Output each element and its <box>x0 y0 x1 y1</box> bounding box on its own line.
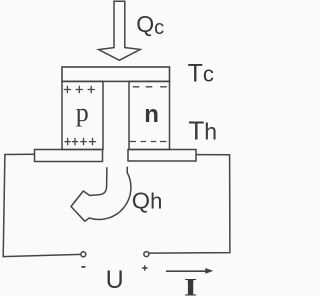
terminal plus (open circle) <box>144 252 149 257</box>
svg-text:Th: Th <box>188 116 217 146</box>
left electrode (hot side) <box>35 150 103 162</box>
svg-text:Tc: Tc <box>188 60 214 88</box>
right electrode (hot side) <box>128 150 196 162</box>
svg-text:Qh: Qh <box>132 188 163 214</box>
current direction arrow <box>166 270 206 272</box>
svg-text:U: U <box>106 266 124 294</box>
minus charges top of n leg (dashes) <box>133 86 167 88</box>
cold plate <box>62 67 170 81</box>
p-type leg <box>62 81 103 149</box>
heat flow arrow Qc (hollow down arrow) <box>99 1 141 60</box>
plus charges top of p leg <box>64 86 95 94</box>
heat flow arrow Qh (curved hollow arrow) <box>71 167 131 222</box>
svg-text:p: p <box>76 98 89 127</box>
wire left (electrode to minus terminal) <box>3 154 80 256</box>
minus charges bottom of n leg (dashes) <box>130 141 167 143</box>
plus sign <box>142 265 148 271</box>
minus sign <box>81 266 85 268</box>
terminal minus (open circle) <box>81 252 86 257</box>
svg-text:I: I <box>184 273 197 296</box>
plus charges bottom of p leg <box>64 138 96 145</box>
svg-text:n: n <box>144 101 159 128</box>
wire right (electrode to plus terminal) <box>149 155 230 254</box>
n-type leg <box>129 81 170 149</box>
